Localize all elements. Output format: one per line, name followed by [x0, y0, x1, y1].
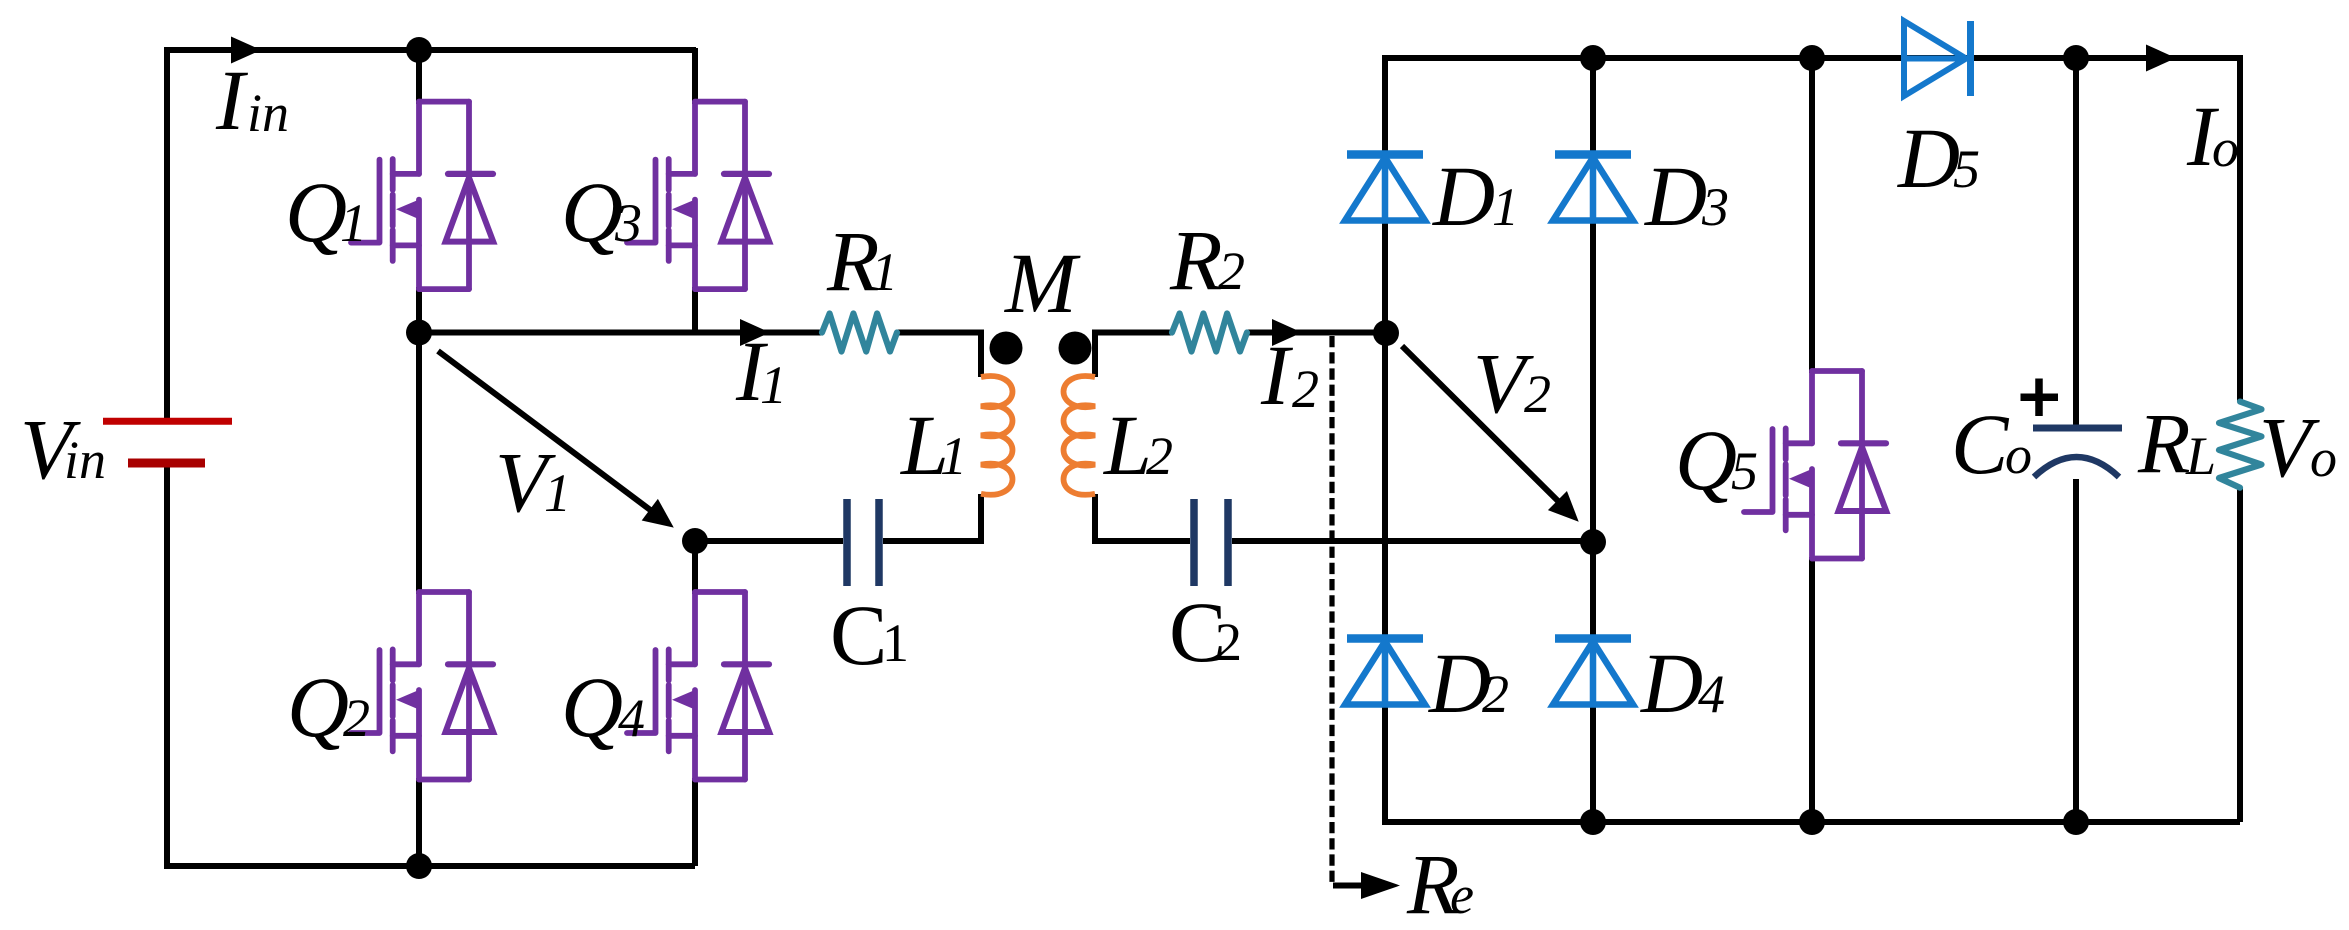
svg-text:o: o	[2212, 118, 2239, 178]
svg-text:o: o	[2005, 425, 2032, 485]
svg-text:Q: Q	[1675, 412, 1737, 508]
svg-text:5: 5	[1731, 441, 1758, 501]
diode D2	[1345, 639, 1425, 705]
svg-text:1: 1	[1492, 177, 1519, 237]
arrow Iin head	[231, 37, 261, 64]
wire: Q3 drain stub	[692, 48, 698, 104]
wire: lower mid node to C1	[695, 538, 843, 544]
wire: right rail lower part	[2237, 488, 2243, 822]
diode D1	[1345, 155, 1425, 221]
svg-text:2: 2	[1218, 241, 1245, 301]
svg-text:o: o	[2310, 428, 2337, 488]
svg-text:I: I	[215, 52, 248, 148]
junction node top bus D3	[1580, 45, 1606, 71]
svg-text:5: 5	[1953, 139, 1980, 199]
svg-text:D: D	[1432, 148, 1495, 244]
wire: Q3 source to mid rail	[692, 287, 698, 335]
arrow Re head	[1361, 872, 1400, 899]
svg-text:2: 2	[343, 688, 370, 748]
junction node bottom-left	[406, 853, 432, 879]
inductor L2 secondary winding	[1064, 376, 1096, 495]
resistor R2	[1172, 314, 1247, 352]
wire: Q5 drain from top bus	[1809, 58, 1815, 373]
wire: D1 anode to V2 node	[1382, 220, 1388, 335]
wire: Q2 source to bottom bus	[416, 778, 422, 866]
svg-text:Q: Q	[561, 659, 623, 755]
arrow I2 head	[1272, 319, 1302, 346]
wire: Q1 drain stub	[416, 48, 422, 104]
capacitor Co flat plate	[2033, 425, 2122, 432]
wire: mid rail I1 wire	[419, 330, 822, 336]
capacitor C2	[1194, 499, 1228, 586]
arrow V1 head	[642, 499, 682, 539]
svg-text:in: in	[64, 430, 106, 490]
inductor L1 primary winding	[981, 376, 1013, 495]
svg-text:D: D	[1644, 148, 1707, 244]
wire: D3 cathode stub	[1590, 58, 1596, 155]
junction node top-left	[406, 37, 432, 63]
arrow V2 head	[1548, 491, 1588, 531]
wire: mid node down to Q2 drain	[416, 333, 422, 595]
transistor Q2 MOSFET	[351, 592, 493, 780]
arrow V1 shaft	[438, 351, 653, 512]
arrow I1 head	[740, 319, 770, 346]
wire: R1 to primary top corner	[897, 333, 981, 378]
wire: secondary bottom lead to C2	[1095, 494, 1190, 541]
svg-text:Q: Q	[285, 164, 347, 260]
svg-text:L: L	[1102, 397, 1152, 493]
wire: Co bottom lead	[2073, 479, 2079, 822]
junction node bottom bus Co	[2063, 809, 2089, 835]
measurement dashed line Re	[1329, 336, 1334, 886]
svg-text:1: 1	[940, 426, 967, 486]
wire: R2 to rectifier input node	[1247, 330, 1386, 336]
wire: D4 anode to bottom bus	[1590, 703, 1596, 822]
svg-text:2: 2	[1215, 612, 1242, 672]
svg-text:1: 1	[544, 463, 571, 523]
diode D4	[1553, 639, 1633, 705]
wire: V2 node to D2 cathode	[1382, 333, 1388, 640]
svg-text:M: M	[1003, 235, 1081, 331]
wire: D2 anode to bottom bus corner	[1385, 703, 2240, 822]
arrow Io head	[2146, 45, 2176, 72]
junction node bottom bus D4	[1580, 809, 1606, 835]
wire: secondary top lead to R2	[1095, 333, 1172, 378]
svg-text:R: R	[1169, 212, 1223, 308]
battery Vin positive plate	[103, 418, 232, 425]
capacitor C1	[847, 499, 879, 586]
svg-text:4: 4	[618, 688, 645, 748]
transformer polarity dot secondary	[1059, 332, 1092, 365]
svg-text:I: I	[1260, 327, 1293, 423]
capacitor Co curved plate	[2034, 457, 2119, 477]
svg-text:3: 3	[614, 193, 642, 253]
svg-text:C: C	[1951, 396, 2010, 492]
wire: Q1 source to mid node	[416, 287, 422, 335]
junction node top bus Co	[2063, 45, 2089, 71]
junction node rectifier input (V2 +)	[1373, 320, 1399, 346]
diode D5	[1904, 21, 1971, 96]
plus sign Co polarity	[2021, 379, 2059, 417]
svg-text:2: 2	[1292, 359, 1319, 419]
svg-text:3: 3	[1701, 177, 1729, 237]
junction node lower-mid (C1 bus)	[682, 528, 708, 554]
arrow Re shaft	[1333, 883, 1367, 889]
svg-text:Q: Q	[561, 164, 623, 260]
diode D3	[1553, 155, 1633, 221]
wire: top input bus with left rail	[167, 50, 696, 419]
svg-text:1: 1	[871, 242, 898, 302]
svg-text:D: D	[1897, 110, 1960, 206]
wire: D3 anode through secondary return node to D4	[1590, 220, 1596, 640]
wire: Q4 source to bottom bus	[692, 778, 698, 866]
junction node top bus Q5	[1799, 45, 1825, 71]
transistor Q4 MOSFET	[627, 592, 769, 780]
resistor R1	[822, 314, 897, 352]
transistor Q5 MOSFET	[1744, 371, 1886, 559]
svg-text:L: L	[2185, 426, 2216, 486]
svg-text:2: 2	[1482, 664, 1509, 724]
svg-text:1: 1	[340, 193, 367, 253]
svg-text:C: C	[830, 587, 887, 683]
svg-text:e: e	[1450, 865, 1474, 925]
svg-text:Q: Q	[287, 659, 349, 755]
wire: rectifier top bus with corners	[1385, 58, 2240, 402]
transistor Q1 MOSFET	[351, 102, 493, 290]
svg-text:R: R	[2137, 395, 2191, 491]
wire: Q5 source to bottom bus	[1809, 557, 1815, 822]
svg-text:4: 4	[1698, 664, 1725, 724]
resistor RL	[2219, 402, 2262, 488]
arrow V2 shaft	[1402, 346, 1558, 501]
junction node secondary return	[1580, 529, 1606, 555]
wire: bottom input bus with left rail lower part	[167, 465, 695, 866]
svg-text:in: in	[247, 83, 289, 143]
svg-text:1: 1	[882, 613, 909, 673]
svg-text:2: 2	[1146, 426, 1173, 486]
wire: C1 to primary bottom corner	[883, 494, 981, 541]
transformer polarity dot primary	[990, 332, 1023, 365]
svg-text:1: 1	[760, 355, 787, 415]
svg-text:2: 2	[1524, 364, 1551, 424]
junction node mid-left (V1 +)	[406, 320, 432, 346]
wire: Q4 drain stub	[692, 541, 698, 594]
junction node bottom bus Q5	[1799, 809, 1825, 835]
battery Vin negative plate	[128, 459, 205, 468]
wire: C2 to secondary return node	[1232, 538, 1593, 544]
svg-text:D: D	[1640, 635, 1703, 731]
transistor Q3 MOSFET	[627, 102, 769, 290]
wire: Co top lead	[2073, 58, 2079, 425]
